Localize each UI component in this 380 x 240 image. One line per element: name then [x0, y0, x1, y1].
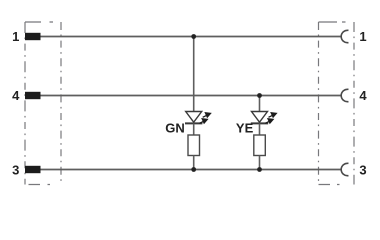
wire: GN branch vertical [193, 37, 195, 112]
node: junction wire3/GN branch [191, 167, 196, 172]
wire: resistor R2 to wire 3 [259, 156, 261, 170]
wire: resistor R1 to wire 3 [193, 156, 195, 170]
node: junction wire1/GN branch [191, 34, 196, 39]
node: junction wire4/YE branch [257, 93, 262, 98]
resistor R2 (YE) [254, 135, 265, 156]
left connector housing (dash-dot box) [25, 22, 61, 185]
LED GN emission arrows [200, 113, 211, 124]
node: junction wire3/YE branch [257, 167, 262, 172]
svg-text:3: 3 [359, 163, 366, 178]
LED YE (diode symbol) [251, 112, 268, 124]
wire: LED YE to resistor [259, 123, 261, 135]
socket contact 3 right [341, 163, 348, 175]
svg-text:3: 3 [12, 163, 19, 178]
socket contact 4 right [341, 89, 348, 101]
resistor R1 (GN) [188, 135, 200, 156]
svg-text:4: 4 [359, 88, 367, 103]
pin 4 left (male contact) [25, 92, 41, 99]
wire 1 [41, 36, 342, 38]
wire: LED GN to resistor [193, 123, 195, 135]
wire: YE branch vertical [259, 96, 261, 112]
socket contact 1 right [341, 30, 348, 42]
svg-text:4: 4 [12, 88, 20, 103]
LED YE emission arrows [265, 113, 276, 124]
LED GN (diode symbol) [185, 112, 202, 124]
svg-text:1: 1 [12, 29, 19, 44]
svg-text:YE: YE [236, 120, 254, 135]
svg-text:GN: GN [165, 120, 185, 135]
wire 3 [41, 169, 342, 171]
wire 4 [41, 95, 342, 97]
pin 1 left (male contact) [25, 33, 41, 40]
svg-text:1: 1 [359, 29, 366, 44]
pin 3 left (male contact) [25, 166, 41, 173]
right connector housing (dash-dot box) [319, 22, 355, 185]
